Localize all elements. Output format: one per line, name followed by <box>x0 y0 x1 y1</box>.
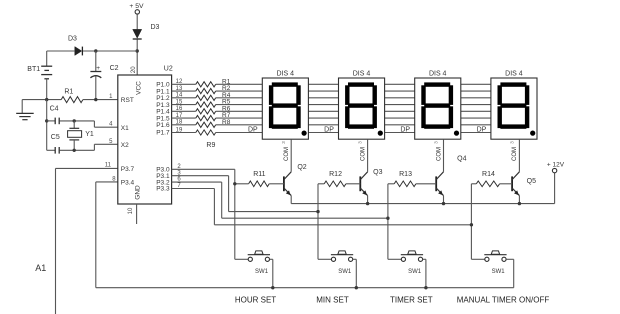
wire emitter <box>290 196 292 204</box>
svg-text:U2: U2 <box>164 66 173 73</box>
switch SW1 #2 (MIN SET) <box>318 251 353 275</box>
svg-text:SW1: SW1 <box>492 269 506 275</box>
wire <box>47 50 75 52</box>
transistor Q3 <box>360 169 382 195</box>
wire +12V rail <box>291 203 554 205</box>
wire <box>172 90 196 92</box>
wire <box>136 14 138 29</box>
wire <box>388 183 394 185</box>
resistor R2 <box>196 85 231 94</box>
svg-text:P3.4: P3.4 <box>121 180 135 187</box>
svg-text:P3.3: P3.3 <box>156 186 170 193</box>
svg-text:+ 5V: + 5V <box>129 3 144 10</box>
svg-text:DP: DP <box>477 126 487 133</box>
wire COM stub #1 <box>290 139 292 172</box>
junction <box>45 119 48 122</box>
wire COM stub #2 <box>367 139 369 172</box>
wire <box>172 110 196 112</box>
transistor Q5 <box>512 172 536 196</box>
wire switch ground rail <box>96 287 514 289</box>
wire <box>83 99 118 101</box>
svg-text:11: 11 <box>105 163 112 169</box>
wire <box>172 104 196 106</box>
wire base <box>346 183 360 185</box>
battery BT1 <box>27 51 52 100</box>
wire emitter <box>443 196 445 204</box>
label DP #1 <box>245 126 259 134</box>
svg-text:GND: GND <box>134 185 141 200</box>
resistor R11 <box>249 171 270 187</box>
wire <box>172 124 196 126</box>
capacitor C5 <box>47 134 95 153</box>
diode D3 (battery isolation) <box>68 36 82 56</box>
junction <box>442 202 445 205</box>
junction <box>355 286 358 289</box>
resistor R1 <box>196 78 231 87</box>
svg-text:20: 20 <box>131 66 137 73</box>
crystal Y1 <box>68 121 94 150</box>
7-segment display DIS4 #3 <box>415 70 461 139</box>
svg-text:DIS 4: DIS 4 <box>277 70 295 77</box>
wire segment row 7 <box>216 124 492 126</box>
wire X2 net <box>93 144 95 150</box>
wire X1 net <box>93 121 95 127</box>
wire segment row 5 <box>216 110 492 112</box>
svg-text:X1: X1 <box>121 125 129 132</box>
junction <box>94 49 97 52</box>
svg-text:DIS 4: DIS 4 <box>505 70 523 77</box>
wire <box>172 117 196 119</box>
diode D3 (vertical, from +5V) <box>133 24 160 39</box>
wire P3.7 to A1 <box>56 167 118 169</box>
capacitor C4 <box>47 105 95 124</box>
switch SW1 #1 (HOUR SET) <box>235 251 270 275</box>
7-segment display DIS4 #2 <box>339 70 385 139</box>
svg-text:Q2: Q2 <box>297 164 306 171</box>
wire emitter <box>518 196 520 204</box>
wire <box>506 258 514 260</box>
svg-text:R13: R13 <box>399 171 412 178</box>
junction <box>424 286 427 289</box>
svg-text:COM: COM <box>512 147 518 161</box>
junction <box>94 98 97 101</box>
resistor R4 <box>196 92 231 101</box>
svg-text:P3.7: P3.7 <box>121 166 135 173</box>
resistor R12 <box>324 171 346 187</box>
wire segment row 3 <box>216 97 492 99</box>
junction <box>233 182 236 185</box>
resistor R8 <box>196 119 231 128</box>
power terminal +5V <box>129 3 144 14</box>
svg-text:RST: RST <box>121 97 134 104</box>
svg-text:Q5: Q5 <box>527 178 536 185</box>
junction <box>316 210 319 213</box>
junction <box>45 98 48 101</box>
wire base <box>500 183 512 185</box>
wire <box>235 183 249 185</box>
svg-text:TIMER SET: TIMER SET <box>390 295 433 304</box>
svg-text:A1: A1 <box>35 263 46 273</box>
power terminal +12V <box>547 161 565 172</box>
7-segment display DIS4 #1 <box>262 70 308 139</box>
ground <box>16 100 34 120</box>
wire P3.4 to switch common <box>96 181 118 183</box>
label DP #4 <box>474 126 488 134</box>
wire emitter <box>367 196 369 204</box>
resistor R5 <box>196 99 231 108</box>
svg-text:VCC: VCC <box>136 81 143 95</box>
svg-text:SW1: SW1 <box>255 269 269 275</box>
svg-text:COM: COM <box>436 147 442 161</box>
junction <box>136 49 139 52</box>
wire base <box>269 183 284 185</box>
wire <box>46 100 48 151</box>
svg-text:SW1: SW1 <box>338 269 352 275</box>
resistor R9 <box>196 130 216 149</box>
svg-text:COM: COM <box>284 147 290 161</box>
wire <box>423 258 426 260</box>
IC U2 (microcontroller) <box>118 66 173 204</box>
resistor R7 <box>196 112 231 121</box>
junction <box>73 119 76 122</box>
svg-text:COM: COM <box>360 147 366 161</box>
svg-text:R11: R11 <box>253 171 265 178</box>
resistor R1 <box>61 89 83 103</box>
wire <box>136 40 138 76</box>
svg-text:10: 10 <box>128 207 134 214</box>
svg-text:DIS 4: DIS 4 <box>429 70 447 77</box>
svg-text:D3: D3 <box>68 36 77 43</box>
label DP #3 <box>397 126 411 134</box>
wire segment row 4 <box>216 104 492 106</box>
wire <box>172 97 196 99</box>
svg-text:R9: R9 <box>206 142 215 149</box>
junction <box>386 217 389 220</box>
svg-text:+: + <box>96 65 100 72</box>
svg-text:R1: R1 <box>64 89 73 96</box>
svg-text:+ 12V: + 12V <box>547 161 565 168</box>
svg-text:BT1: BT1 <box>27 66 40 73</box>
junction <box>470 223 473 226</box>
wire P3.2 feed <box>172 181 222 183</box>
wire segment row 1 <box>216 83 492 85</box>
wire DP row <box>216 132 492 134</box>
svg-text:R14: R14 <box>482 171 495 178</box>
switch SW1 #3 (TIMER SET) <box>388 251 423 275</box>
junction <box>271 286 274 289</box>
wire <box>172 132 196 134</box>
wire base <box>416 183 436 185</box>
svg-text:C5: C5 <box>51 134 60 141</box>
svg-text:D3: D3 <box>151 24 160 31</box>
svg-text:DP: DP <box>324 126 334 133</box>
wire <box>270 258 273 260</box>
wire segment row 2 <box>216 90 492 92</box>
wire <box>353 258 357 260</box>
switch SW1 #4 (MANUAL TIMER ON/OFF) <box>471 251 506 275</box>
wire <box>318 183 324 185</box>
wire <box>83 50 138 52</box>
svg-text:R12: R12 <box>329 171 342 178</box>
junction <box>73 149 76 152</box>
svg-text:SW1: SW1 <box>408 269 422 275</box>
transistor Q4 <box>436 156 466 196</box>
svg-text:DP: DP <box>248 126 258 133</box>
wire P3.3 feed <box>172 188 215 190</box>
resistor R14 <box>476 171 499 187</box>
wire COM stub #4 <box>518 139 520 172</box>
resistor R13 <box>394 171 416 187</box>
wire COM stub #3 <box>443 139 445 172</box>
svg-text:HOUR SET: HOUR SET <box>235 295 276 304</box>
wire <box>471 183 476 185</box>
svg-text:Q3: Q3 <box>373 169 382 176</box>
wire P3.0 feed <box>172 168 235 170</box>
svg-text:Y1: Y1 <box>85 131 94 138</box>
wire RST net <box>22 99 61 101</box>
svg-text:MANUAL TIMER ON/OFF: MANUAL TIMER ON/OFF <box>457 295 550 304</box>
svg-text:DIS 4: DIS 4 <box>353 70 371 77</box>
svg-text:P1.6: P1.6 <box>156 122 170 129</box>
wire <box>172 83 196 85</box>
resistor R6 <box>196 105 231 114</box>
svg-text:Q4: Q4 <box>457 156 466 163</box>
junction <box>366 202 369 205</box>
wire segment row 6 <box>216 117 492 119</box>
transistor Q2 <box>284 164 307 196</box>
capacitor C2 <box>90 51 118 100</box>
junction <box>518 202 521 205</box>
svg-text:C2: C2 <box>110 65 119 72</box>
svg-text:C4: C4 <box>50 105 59 112</box>
svg-text:DP: DP <box>400 126 410 133</box>
pin 10 stub <box>136 204 138 224</box>
svg-text:MIN SET: MIN SET <box>316 295 349 304</box>
7-segment display DIS4 #4 <box>491 70 537 139</box>
svg-text:X2: X2 <box>121 142 129 149</box>
label DP #2 <box>321 126 335 134</box>
svg-text:P1.7: P1.7 <box>156 130 170 137</box>
wire P3.1 feed <box>172 175 229 177</box>
